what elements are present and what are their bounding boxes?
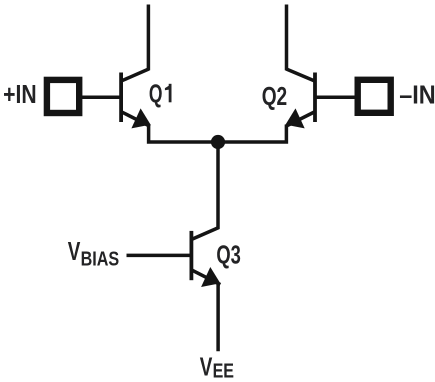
-IN input terminal box xyxy=(358,80,391,113)
+IN input terminal box xyxy=(47,80,79,113)
node: tail junction xyxy=(211,135,225,149)
wire: tail node down to Q3 collector xyxy=(216,142,220,229)
label VEE xyxy=(200,351,234,382)
label VBIAS xyxy=(68,236,119,270)
wire: Q1 base wire xyxy=(81,96,122,100)
transistor Q1 xyxy=(121,69,151,128)
svg-text:V: V xyxy=(200,351,213,381)
wire: Q2 base wire xyxy=(315,96,357,100)
svg-text:–IN: –IN xyxy=(399,80,435,110)
svg-text:Q2: Q2 xyxy=(262,81,288,111)
transistor Q3 xyxy=(191,228,220,288)
wire: emitter bus from Q1 emitter to Q2 emitter through tail node xyxy=(149,125,287,143)
svg-text:V: V xyxy=(68,236,81,266)
wire: Q3 base wire from VBIAS xyxy=(127,254,192,258)
wire: Q3 emitter down to VEE xyxy=(216,284,220,352)
wire: Q2 collector lead (right vertical) xyxy=(285,5,289,71)
svg-text:BIAS: BIAS xyxy=(81,248,120,270)
label Q1 xyxy=(149,79,172,109)
svg-text:Q3: Q3 xyxy=(216,240,241,270)
svg-text:EE: EE xyxy=(213,361,234,382)
svg-text:+IN: +IN xyxy=(3,79,37,109)
transistor Q2 xyxy=(286,69,316,128)
wire: Q1 collector lead (left vertical) xyxy=(147,5,151,71)
svg-text:Q: Q xyxy=(149,79,163,109)
